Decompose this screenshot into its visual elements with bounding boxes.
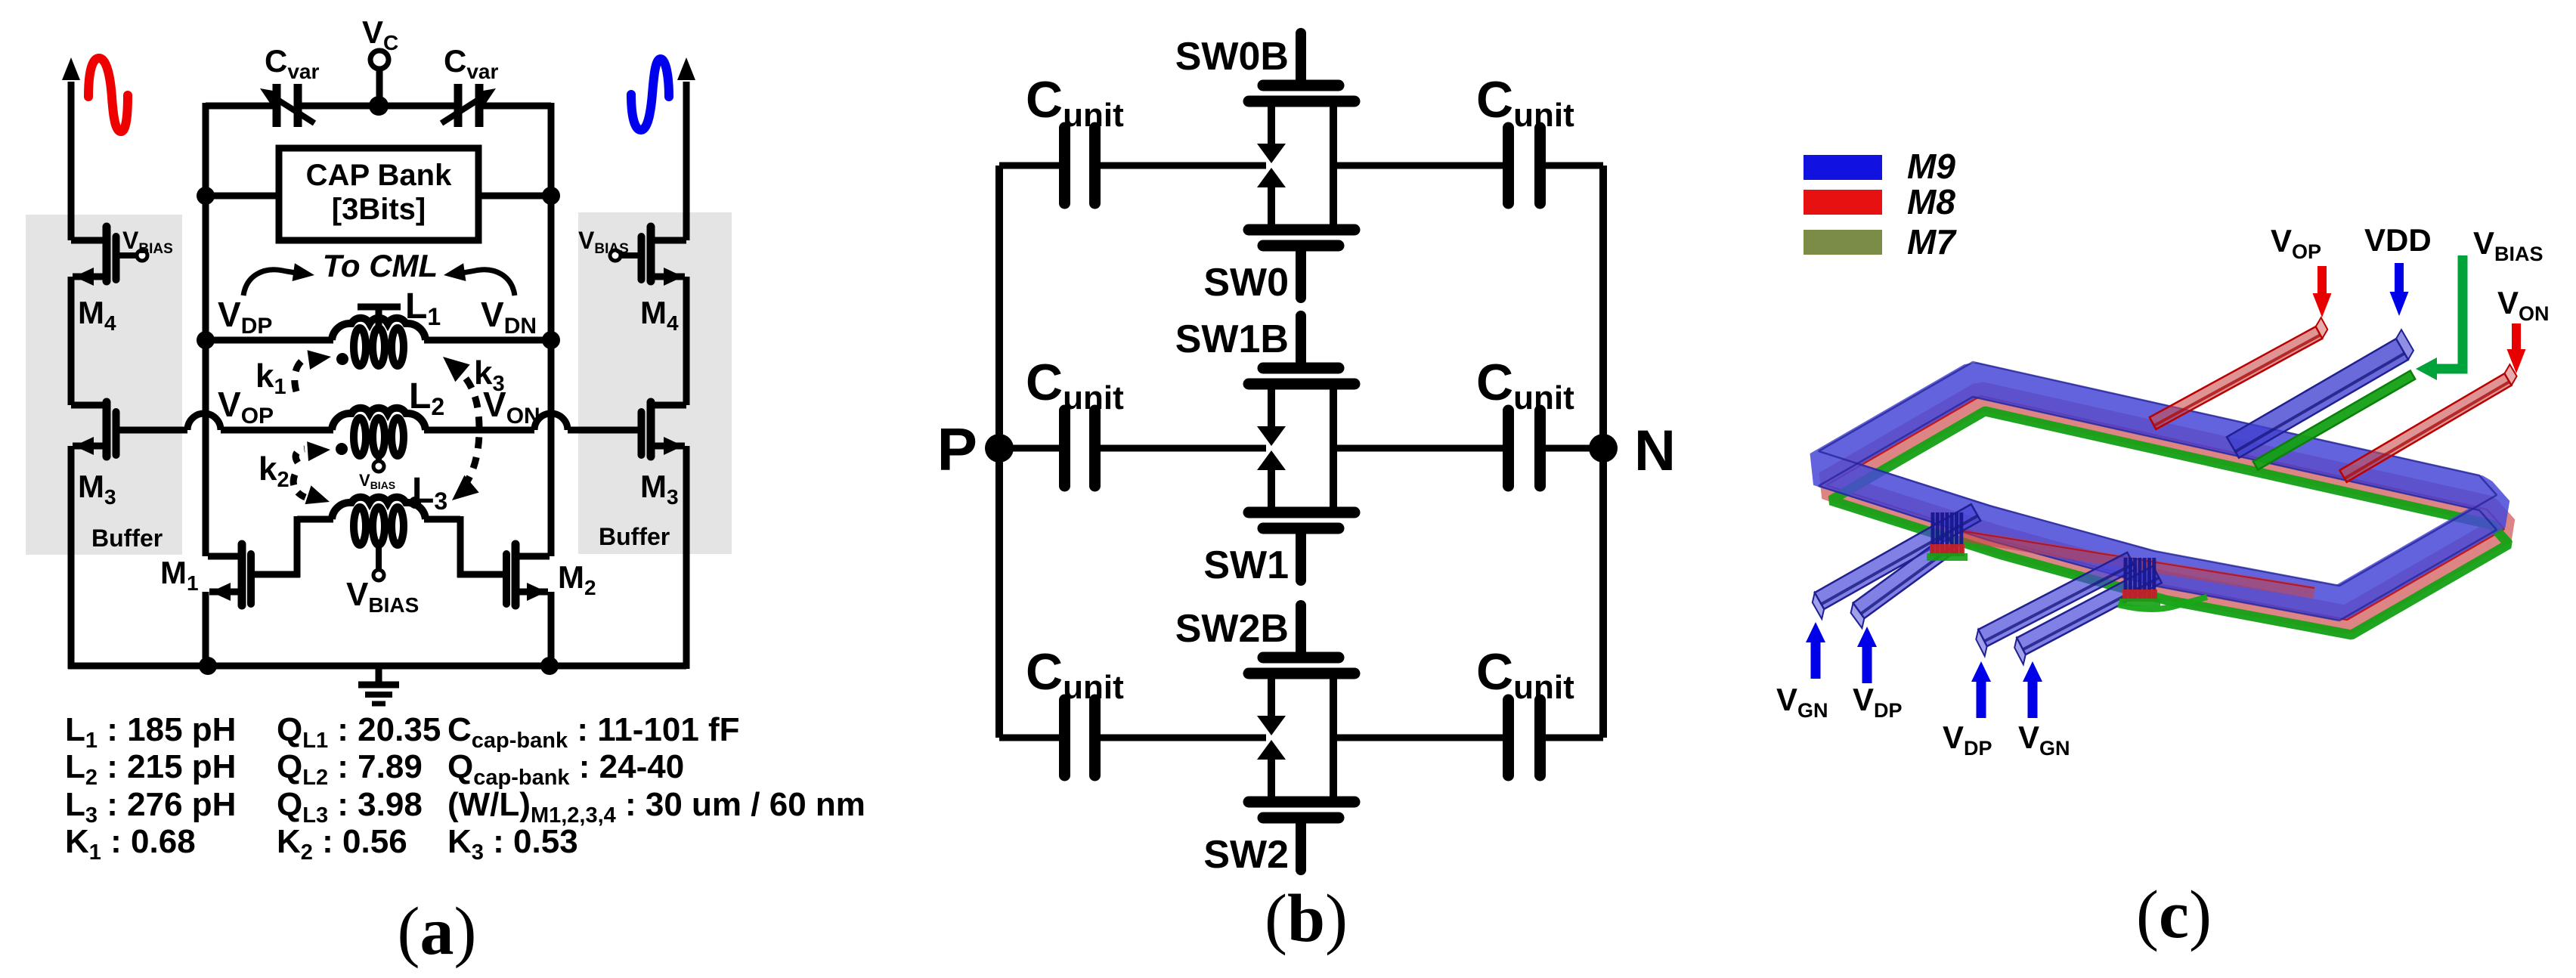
- svg-text:SW2B: SW2B: [1175, 607, 1289, 651]
- L3 center tap: [376, 541, 382, 569]
- transistor M3 left: [103, 402, 111, 457]
- wire: left tank rail lower segment to ground: [203, 592, 209, 669]
- node Vc: [370, 51, 389, 69]
- node dot top rail: [369, 96, 389, 116]
- L2 center tap: [376, 452, 382, 460]
- transistor M3 right: [647, 402, 655, 457]
- node dot ground right: [540, 657, 559, 675]
- svg-text:M8: M8: [1907, 182, 1955, 221]
- switch MOS pair at row y=593: [1296, 316, 1306, 364]
- svg-text:K3 : 0.53: K3 : 0.53: [447, 823, 578, 865]
- capacitor Cunit row2 left: [1059, 700, 1070, 775]
- legend M8 swatch: [1804, 190, 1882, 215]
- svg-text:Buffer: Buffer: [599, 523, 670, 550]
- svg-text:To CML: To CML: [323, 248, 438, 283]
- svg-text:VDD: VDD: [2364, 222, 2432, 258]
- svg-text:QL3 : 3.98: QL3 : 3.98: [277, 786, 423, 828]
- blue up arrow: [1977, 681, 1986, 718]
- feed bar VBIAS (M7 green): [2253, 370, 2415, 469]
- inductor L2: [332, 408, 426, 430]
- wire: row 2 horizontal: [999, 735, 1059, 741]
- transistor M2: [512, 544, 520, 605]
- svg-text:SW0: SW0: [1203, 261, 1289, 305]
- k1 dashed coupling arc: [295, 358, 305, 392]
- wire: L1 row left: [206, 337, 333, 344]
- transistor M1: [238, 544, 246, 605]
- green wisp at via2: [2118, 597, 2207, 609]
- feed bar VOP (M8 red): [2150, 327, 2323, 429]
- blue up arrow: [1862, 646, 1872, 683]
- inductor ring M8 (red): [1826, 396, 2504, 620]
- To CML curved arrow right: [457, 270, 515, 296]
- svg-text:(c): (c): [2136, 877, 2212, 952]
- wire: cap bank left connection: [206, 193, 279, 200]
- wire: bottom ground rail: [68, 663, 686, 670]
- wire: VOP row with hop over left rail: [119, 427, 187, 434]
- VBIAS green elbow arrow: [2434, 255, 2463, 369]
- node VDP dot: [197, 331, 215, 349]
- wire: L3 right step to M2 gate: [424, 516, 460, 523]
- transistor M4 left: [103, 227, 111, 281]
- via stack 2: [2124, 558, 2128, 600]
- svg-text:K2 : 0.56: K2 : 0.56: [277, 823, 407, 865]
- wire: M3L source to ground: [68, 446, 75, 669]
- svg-text:SW1B: SW1B: [1175, 317, 1289, 361]
- wire: panel b right rail: [1599, 166, 1607, 738]
- wire: M3R source to ground: [683, 446, 690, 669]
- node dot ground left: [199, 657, 217, 675]
- node dot cap bank right: [542, 187, 560, 205]
- CAP Bank box: [279, 148, 478, 240]
- wire: top rail segments with varactors: [206, 103, 273, 110]
- VON red arrow: [2512, 323, 2521, 354]
- svg-text:(a): (a): [398, 894, 477, 969]
- inductor ring M7 (green): [1831, 411, 2509, 635]
- wire: M4R-M3R cascade: [683, 277, 690, 405]
- VDD blue arrow: [2395, 263, 2404, 296]
- node VDN dot: [542, 331, 560, 349]
- wire: left tank rail: [203, 103, 209, 556]
- wire: M4L-M3L cascade: [68, 277, 75, 405]
- stub bar VGN left: [1815, 504, 1980, 609]
- wire: right output line: [683, 82, 690, 240]
- k3 dashed coupling arc: [451, 364, 479, 493]
- L1 center tap T bar: [358, 304, 401, 311]
- blue sine wave: [631, 59, 669, 130]
- node dot cap bank left: [197, 187, 215, 205]
- svg-text:QL1 : 20.35: QL1 : 20.35: [277, 711, 441, 753]
- svg-text:[3Bits]: [3Bits]: [332, 193, 426, 226]
- feed bar VDD (M9 blue): [2227, 339, 2408, 458]
- wire: cap bank right connection: [478, 193, 551, 200]
- svg-text:SW0B: SW0B: [1175, 35, 1289, 79]
- wire: VON row with hop over right rail: [424, 427, 534, 434]
- wire: right tank rail: [548, 103, 555, 556]
- capacitor Cunit row1 left: [1059, 410, 1070, 486]
- node N dot: [1589, 434, 1618, 463]
- To CML curved arrow left: [243, 270, 302, 296]
- wire: left output line: [68, 82, 75, 240]
- stub bar VDP left: [1853, 535, 1958, 618]
- svg-text:Buffer: Buffer: [91, 525, 163, 552]
- via stack 1: [1931, 512, 1935, 555]
- legend M7 swatch: [1804, 230, 1882, 255]
- red sine wave: [88, 58, 128, 132]
- capacitor Cvar right: [454, 84, 463, 127]
- feed bar VON (M8 red): [2339, 373, 2511, 482]
- svg-text:(W/L)M1,2,3,4 : 30 um / 60 nm: (W/L)M1,2,3,4 : 30 um / 60 nm: [447, 786, 865, 828]
- capacitor Cunit row0 left: [1059, 128, 1070, 203]
- right buffer shaded region: [578, 212, 732, 554]
- wire: panel b left rail: [995, 166, 1003, 738]
- ground symbol: [376, 669, 382, 682]
- left buffer shaded region: [26, 215, 182, 555]
- inductor L1: [332, 318, 426, 340]
- wire: row 1 horizontal: [999, 445, 1059, 452]
- wire: right tank rail lower segment to ground: [548, 592, 555, 669]
- capacitor Cunit row2 right: [1503, 700, 1514, 775]
- svg-text:K1 : 0.68: K1 : 0.68: [65, 823, 196, 865]
- blue up arrow: [1811, 642, 1821, 679]
- svg-text:SW2: SW2: [1203, 833, 1289, 877]
- wire: row 0 horizontal: [999, 162, 1059, 169]
- capacitor Cvar left: [273, 84, 281, 127]
- node P dot: [985, 434, 1014, 463]
- wire: Vc stub: [376, 68, 383, 109]
- stub bar VGN mid: [2017, 566, 2162, 655]
- legend M9 swatch: [1804, 155, 1882, 180]
- VOP red arrow: [2317, 266, 2327, 299]
- switch MOS pair at row y=219: [1296, 33, 1306, 81]
- svg-text:N: N: [1634, 419, 1676, 483]
- wire: L1 row right: [424, 337, 551, 344]
- k2 dashed coupling arcs: [296, 449, 305, 463]
- svg-text:M9: M9: [1907, 147, 1955, 186]
- inductor L3: [332, 497, 426, 519]
- svg-text:SW1: SW1: [1203, 543, 1289, 587]
- wire: L3 left step to M1 gate: [297, 516, 333, 523]
- svg-text:(b): (b): [1265, 881, 1348, 956]
- svg-text:P: P: [937, 416, 977, 483]
- transistor M4 right: [647, 227, 655, 281]
- svg-text:CAP Bank: CAP Bank: [306, 159, 452, 192]
- M8 red trace via1 to right: [1959, 535, 2314, 593]
- svg-text:M7: M7: [1907, 222, 1957, 262]
- capacitor Cunit row1 right: [1503, 410, 1514, 486]
- stub bar VDP mid: [1978, 552, 2135, 646]
- switch MOS pair at row y=976: [1296, 605, 1306, 653]
- svg-text:QL2 : 7.89: QL2 : 7.89: [277, 748, 423, 790]
- inductor ring M9 (blue): [1819, 379, 2497, 603]
- capacitor Cunit row0 right: [1503, 128, 1514, 203]
- blue up arrow: [2028, 681, 2038, 718]
